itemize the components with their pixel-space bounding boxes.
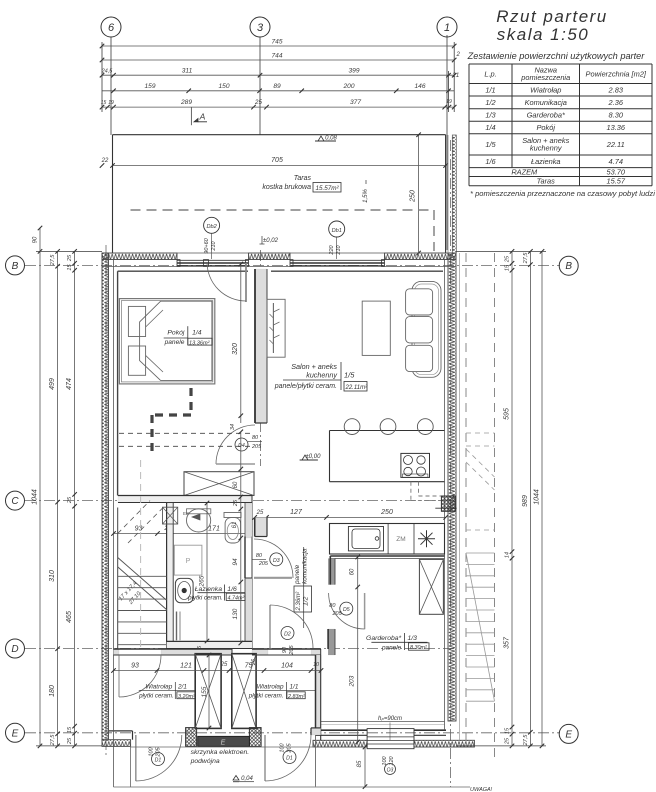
svg-text:60: 60: [233, 481, 239, 488]
svg-text:53.70: 53.70: [607, 168, 626, 177]
svg-text:1/4: 1/4: [485, 123, 495, 132]
svg-text:E: E: [12, 728, 19, 739]
svg-text:205: 205: [332, 611, 343, 617]
svg-text:L.p.: L.p.: [484, 69, 496, 78]
svg-text:10: 10: [313, 662, 320, 668]
svg-text:465: 465: [66, 611, 73, 623]
svg-text:250: 250: [380, 509, 393, 516]
svg-text:±0,00: ±0,00: [306, 454, 322, 460]
svg-text:Komunikacja: Komunikacja: [525, 98, 567, 107]
svg-text:13.36m²: 13.36m²: [189, 340, 211, 346]
svg-text:15: 15: [505, 264, 511, 271]
svg-text:61: 61: [232, 522, 238, 529]
svg-text:19: 19: [446, 99, 452, 105]
svg-text:310: 310: [49, 570, 56, 582]
svg-text:14: 14: [505, 552, 511, 558]
svg-text:P: P: [186, 558, 191, 565]
svg-text:panele: panele: [381, 644, 402, 651]
svg-text:203: 203: [349, 675, 356, 687]
svg-text:kuchenny: kuchenny: [306, 371, 337, 380]
svg-text:34: 34: [230, 424, 236, 430]
svg-text:130: 130: [232, 608, 239, 619]
svg-text:Pokój: Pokój: [167, 330, 184, 337]
svg-text:90: 90: [33, 236, 39, 243]
svg-text:Garderoba*: Garderoba*: [527, 111, 566, 120]
svg-text:155: 155: [201, 686, 208, 697]
svg-text:D2: D2: [284, 632, 291, 638]
svg-text:2/1: 2/1: [177, 683, 187, 690]
svg-text:745: 745: [271, 39, 282, 46]
svg-text:A: A: [199, 112, 206, 122]
svg-text:1/1: 1/1: [485, 85, 495, 94]
svg-text:3: 3: [257, 22, 264, 34]
svg-text:19: 19: [108, 100, 114, 106]
svg-text:1/1: 1/1: [290, 683, 299, 690]
svg-text:180: 180: [49, 685, 56, 697]
svg-text:komunikacja: komunikacja: [302, 548, 309, 584]
svg-text:B: B: [12, 261, 19, 272]
svg-text:80: 80: [329, 603, 336, 609]
svg-text:Wiatrołap: Wiatrołap: [257, 683, 284, 690]
svg-text:171: 171: [208, 526, 220, 533]
svg-text:1: 1: [444, 22, 450, 34]
svg-text:Taras: Taras: [294, 175, 312, 182]
svg-text:205: 205: [251, 444, 262, 450]
svg-text:kostka brukowa: kostka brukowa: [262, 184, 311, 191]
svg-text:320: 320: [232, 343, 239, 355]
svg-text:Garderoba*: Garderoba*: [366, 635, 401, 642]
svg-text:płytki ceram.: płytki ceram.: [248, 693, 284, 700]
svg-text:22.11m²: 22.11m²: [345, 385, 369, 391]
svg-text:8.30: 8.30: [609, 111, 624, 120]
svg-text:2.36: 2.36: [608, 98, 624, 107]
svg-text:21: 21: [452, 73, 460, 79]
svg-text:289: 289: [180, 99, 192, 106]
svg-text:80: 80: [252, 435, 259, 441]
svg-text:27,5: 27,5: [50, 734, 56, 747]
svg-text:90+60: 90+60: [204, 237, 210, 253]
svg-text:Db2: Db2: [206, 224, 217, 230]
svg-text:Pokój: Pokój: [537, 123, 556, 132]
svg-text:1/5: 1/5: [344, 371, 355, 380]
svg-text:15: 15: [505, 727, 511, 734]
svg-text:22.11: 22.11: [606, 140, 625, 149]
svg-text:skala 1:50: skala 1:50: [497, 25, 590, 44]
svg-text:ZM: ZM: [396, 536, 405, 543]
svg-text:499: 499: [49, 378, 56, 390]
svg-text:15: 15: [101, 100, 107, 106]
svg-text:płytki ceram.: płytki ceram.: [187, 594, 223, 601]
svg-text:D3: D3: [273, 558, 280, 564]
svg-text:panele: panele: [294, 564, 301, 585]
svg-text:2.36m²: 2.36m²: [296, 591, 302, 612]
svg-text:989: 989: [522, 495, 529, 507]
svg-text:Db1: Db1: [332, 228, 342, 234]
svg-text:Wiatrołap: Wiatrołap: [145, 683, 172, 690]
svg-text:2: 2: [456, 52, 461, 58]
svg-text:D1: D1: [286, 756, 293, 762]
svg-text:1/6: 1/6: [485, 157, 496, 166]
svg-text:E: E: [221, 740, 226, 747]
svg-text:205: 205: [156, 746, 162, 757]
svg-text:0,08: 0,08: [325, 136, 337, 142]
svg-text:25: 25: [67, 254, 73, 262]
svg-text:1/5: 1/5: [485, 140, 496, 149]
svg-text:25: 25: [254, 99, 262, 106]
svg-text:3.20m²: 3.20m²: [178, 694, 195, 700]
svg-text:89: 89: [273, 83, 281, 90]
svg-text:płytki ceram.: płytki ceram.: [138, 693, 174, 700]
svg-text:205: 205: [287, 742, 293, 753]
svg-text:0,04: 0,04: [241, 776, 253, 782]
svg-text:15.57m²: 15.57m²: [315, 185, 339, 192]
svg-text:hₚ=90cm: hₚ=90cm: [378, 716, 402, 722]
svg-text:25: 25: [67, 496, 73, 504]
svg-text:Taras: Taras: [537, 177, 556, 186]
svg-text:1044: 1044: [534, 489, 541, 505]
svg-text:25: 25: [220, 662, 228, 668]
svg-text:panele/płytki ceram.: panele/płytki ceram.: [274, 383, 337, 390]
svg-text:2.83: 2.83: [608, 85, 624, 94]
svg-text:* pomieszczenia przeznaczone n: * pomieszczenia przeznaczone na czasowy …: [470, 189, 655, 198]
svg-text:27,5: 27,5: [523, 252, 529, 265]
svg-text:377: 377: [350, 99, 361, 106]
svg-text:27,5: 27,5: [50, 254, 56, 267]
svg-text:pomieszczenia: pomieszczenia: [520, 73, 570, 82]
svg-text:25: 25: [256, 510, 264, 516]
svg-text:D: D: [11, 644, 18, 655]
svg-text:C: C: [11, 496, 19, 507]
svg-text:25: 25: [505, 737, 511, 745]
svg-text:podwójna: podwójna: [190, 758, 220, 765]
svg-text:RAZEM: RAZEM: [511, 168, 538, 177]
svg-text:25: 25: [233, 499, 239, 507]
svg-text:24,5: 24,5: [101, 69, 113, 75]
svg-text:357: 357: [504, 636, 511, 649]
svg-text:Zestawienie powierzchni użytko: Zestawienie powierzchni użytkowych parte…: [467, 51, 646, 61]
svg-text:1/6: 1/6: [227, 586, 237, 593]
svg-text:94: 94: [232, 558, 239, 566]
svg-text:25: 25: [67, 737, 73, 745]
svg-text:399: 399: [348, 68, 359, 75]
svg-text:100: 100: [149, 746, 155, 756]
svg-text:±0,02: ±0,02: [263, 238, 279, 244]
svg-text:104: 104: [281, 663, 293, 670]
svg-text:15.57: 15.57: [607, 177, 626, 186]
svg-text:474: 474: [66, 378, 73, 390]
svg-text:220: 220: [329, 244, 335, 255]
svg-text:1/2: 1/2: [485, 98, 495, 107]
svg-text:Rzut parteru: Rzut parteru: [496, 7, 608, 26]
svg-text:4.74: 4.74: [609, 157, 623, 166]
svg-text:250: 250: [410, 190, 417, 203]
svg-text:80: 80: [256, 553, 263, 559]
svg-text:E: E: [565, 729, 572, 740]
svg-text:panele: panele: [164, 339, 185, 346]
svg-text:4.74m²: 4.74m²: [228, 596, 245, 602]
svg-text:1,5%: 1,5%: [363, 189, 369, 203]
svg-text:205: 205: [289, 644, 295, 655]
svg-text:205: 205: [258, 561, 269, 567]
svg-text:UWAGA!: UWAGA!: [470, 787, 493, 792]
svg-text:60: 60: [350, 568, 356, 575]
svg-text:26: 26: [251, 658, 257, 666]
svg-text:15: 15: [67, 264, 73, 271]
svg-text:B: B: [565, 261, 572, 272]
svg-text:93: 93: [131, 663, 139, 670]
svg-text:27,5: 27,5: [523, 734, 529, 747]
svg-text:85: 85: [357, 760, 363, 767]
svg-text:311: 311: [182, 68, 193, 75]
svg-text:Łazienka: Łazienka: [531, 157, 561, 166]
svg-text:121: 121: [180, 663, 192, 670]
svg-text:O3: O3: [387, 768, 394, 774]
svg-text:705: 705: [271, 157, 283, 164]
svg-text:25: 25: [505, 255, 511, 263]
svg-text:1/4: 1/4: [192, 330, 202, 337]
svg-text:Powierzchnia [m2]: Powierzchnia [m2]: [586, 69, 647, 78]
svg-text:D1: D1: [155, 758, 162, 764]
svg-text:8.30m²: 8.30m²: [410, 645, 427, 651]
svg-text:22: 22: [101, 158, 109, 164]
svg-text:2.83m²: 2.83m²: [287, 694, 305, 700]
svg-text:1/2: 1/2: [303, 596, 310, 606]
svg-text:D5: D5: [343, 607, 350, 613]
svg-text:90: 90: [282, 646, 288, 653]
svg-text:744: 744: [271, 53, 282, 60]
svg-text:1044: 1044: [32, 489, 39, 505]
svg-text:1/3: 1/3: [485, 111, 496, 120]
svg-text:1/3: 1/3: [408, 635, 418, 642]
svg-text:150: 150: [218, 83, 229, 90]
svg-text:13.36: 13.36: [607, 123, 626, 132]
svg-text:200: 200: [342, 83, 354, 90]
svg-text:265: 265: [199, 575, 206, 587]
svg-text:kuchenny: kuchenny: [530, 144, 563, 153]
svg-text:595: 595: [504, 408, 511, 420]
svg-text:146: 146: [414, 83, 425, 90]
svg-text:6: 6: [108, 22, 115, 34]
svg-text:159: 159: [144, 83, 155, 90]
svg-text:skrzynka elektroen.: skrzynka elektroen.: [191, 749, 250, 756]
svg-text:Wiatrołap: Wiatrołap: [530, 85, 561, 94]
svg-text:100: 100: [280, 742, 286, 752]
svg-text:15: 15: [67, 726, 73, 733]
svg-text:127: 127: [290, 509, 303, 516]
